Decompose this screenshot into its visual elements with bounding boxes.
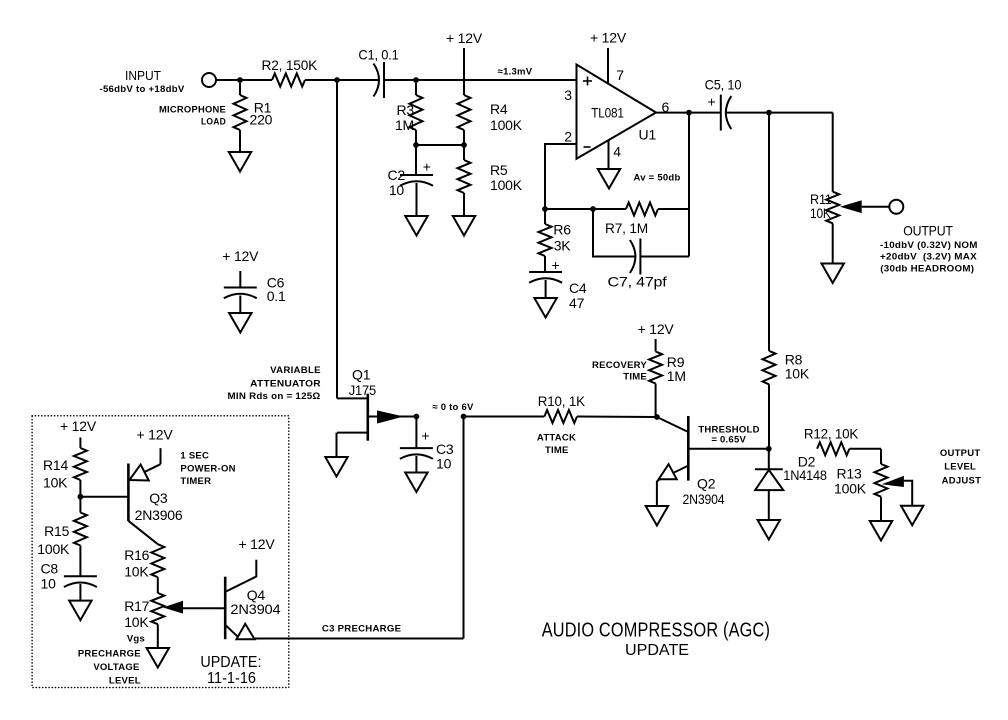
svg-text:Vgs: Vgs bbox=[127, 634, 145, 645]
svg-text:10: 10 bbox=[436, 456, 452, 472]
wire R3-R4 node bbox=[416, 144, 464, 146]
svg-text:C4: C4 bbox=[569, 280, 587, 296]
svg-text:4: 4 bbox=[613, 143, 621, 159]
svg-text:(30db HEADROOM): (30db HEADROOM) bbox=[880, 264, 974, 275]
ground below R13 wiper bbox=[901, 506, 923, 526]
svg-text:TIME: TIME bbox=[545, 445, 569, 456]
svg-text:C2: C2 bbox=[388, 167, 406, 183]
svg-text:R3: R3 bbox=[397, 102, 415, 118]
svg-text:LEVEL: LEVEL bbox=[944, 462, 976, 473]
wire C7 left leg bbox=[593, 209, 635, 257]
wire wiper to output terminal bbox=[862, 206, 890, 208]
svg-text:2N3906: 2N3906 bbox=[135, 507, 183, 523]
svg-text:R2, 150K: R2, 150K bbox=[262, 57, 318, 73]
svg-text:Q2: Q2 bbox=[697, 476, 716, 492]
svg-text:POWER-ON: POWER-ON bbox=[180, 464, 235, 475]
svg-text:R7, 1M: R7, 1M bbox=[605, 220, 648, 236]
svg-text:R10, 1K: R10, 1K bbox=[538, 393, 586, 409]
ground below Q1 source bbox=[325, 457, 347, 477]
wire pin 6 output bbox=[656, 112, 720, 114]
svg-text:PRECHARGE: PRECHARGE bbox=[78, 648, 141, 659]
svg-text:LEVEL: LEVEL bbox=[109, 675, 141, 686]
svg-text:7: 7 bbox=[616, 67, 624, 83]
wire C3 precharge bbox=[255, 638, 464, 640]
wire pin 7 supply bbox=[607, 48, 609, 84]
svg-text:AUDIO COMPRESSOR (AGC): AUDIO COMPRESSOR (AGC) bbox=[542, 620, 770, 642]
svg-text:TIMER: TIMER bbox=[180, 476, 211, 487]
ground below R11 bbox=[822, 264, 844, 284]
svg-text:Av = 50db: Av = 50db bbox=[633, 173, 680, 184]
svg-text:ATTACK: ATTACK bbox=[537, 433, 576, 444]
svg-text:= 0.65V: = 0.65V bbox=[711, 435, 746, 446]
svg-text:U1: U1 bbox=[639, 127, 657, 143]
resistor R14 bbox=[79, 438, 81, 449]
wire pin 2 inverting input bbox=[545, 144, 577, 209]
svg-text:10: 10 bbox=[389, 182, 405, 198]
svg-text:C7, 47pf: C7, 47pf bbox=[608, 274, 667, 290]
svg-text:TIME: TIME bbox=[623, 371, 647, 382]
svg-text:-10dbV (0.32V) NOM: -10dbV (0.32V) NOM bbox=[880, 240, 978, 251]
op-amp U1 TL081 bbox=[577, 65, 657, 159]
junction feedback/C7 bbox=[590, 206, 596, 212]
capacitor C6 bbox=[239, 271, 241, 288]
wire C7 right leg bbox=[640, 256, 689, 258]
wire pin 4 to ground bbox=[608, 141, 610, 170]
svg-text:+ 12V: + 12V bbox=[239, 536, 276, 552]
svg-text:ADJUST: ADJUST bbox=[942, 475, 982, 486]
node INPUT terminal bbox=[202, 73, 216, 87]
svg-text:+ 12V: + 12V bbox=[222, 248, 259, 264]
svg-text:1M: 1M bbox=[395, 117, 414, 133]
junction pin6/feedback bbox=[686, 110, 692, 116]
svg-text:2N3904: 2N3904 bbox=[230, 601, 280, 617]
svg-text:2N3904: 2N3904 bbox=[683, 491, 725, 507]
resistor R3 bbox=[415, 80, 417, 95]
R11 wiper arrow bbox=[840, 200, 862, 213]
svg-text:1M: 1M bbox=[667, 368, 686, 384]
wire C1 to op-amp pin 3 bbox=[384, 79, 577, 81]
junction R4/R5 bbox=[461, 142, 467, 148]
ground below R17 bbox=[147, 648, 169, 668]
wire C5 to R11 bbox=[727, 112, 833, 114]
resistor R1 bbox=[239, 80, 241, 95]
svg-text:+ 12V: + 12V bbox=[60, 418, 97, 434]
R17 wiper arrow bbox=[163, 601, 183, 614]
svg-text:100K: 100K bbox=[490, 117, 523, 133]
potentiometer R11 bbox=[826, 192, 839, 224]
node OUTPUT terminal bbox=[889, 200, 903, 214]
svg-text:+: + bbox=[708, 93, 716, 109]
ground below C6 bbox=[229, 313, 251, 333]
dotted enclosure 1 sec power-on timer bbox=[32, 416, 289, 688]
resistor R7 bbox=[626, 203, 658, 216]
svg-text:UPDATE:: UPDATE: bbox=[200, 654, 261, 671]
svg-text:10: 10 bbox=[41, 576, 57, 592]
svg-text:C8: C8 bbox=[41, 560, 59, 576]
svg-text:R15: R15 bbox=[44, 523, 69, 539]
svg-text:1 SEC: 1 SEC bbox=[180, 450, 209, 461]
resistor R10 bbox=[464, 416, 545, 418]
svg-text:+: + bbox=[423, 158, 431, 174]
junction C1/R3 bbox=[413, 77, 419, 83]
svg-text:R13: R13 bbox=[836, 466, 861, 482]
svg-text:10K: 10K bbox=[43, 475, 68, 491]
transistor Q4 2N3904 bbox=[224, 577, 227, 640]
svg-text:VOLTAGE: VOLTAGE bbox=[93, 662, 139, 673]
ground below D2 bbox=[758, 520, 780, 540]
svg-text:MIN Rds on = 125Ω: MIN Rds on = 125Ω bbox=[228, 391, 321, 402]
svg-text:10K: 10K bbox=[785, 366, 810, 382]
svg-text:OUTPUT: OUTPUT bbox=[903, 222, 953, 238]
svg-text:10K: 10K bbox=[810, 205, 831, 221]
capacitor C5 bbox=[720, 95, 722, 131]
junction C5/R8 bbox=[766, 110, 772, 116]
diode D2 1N4148 bbox=[768, 449, 770, 470]
op-amp plus input mark bbox=[583, 80, 592, 82]
capacitor C7 bbox=[630, 240, 636, 273]
svg-text:100K: 100K bbox=[490, 177, 523, 193]
svg-text:100K: 100K bbox=[834, 481, 867, 497]
wire output node down to C7 bbox=[688, 113, 690, 257]
potentiometer R17 bbox=[151, 593, 164, 624]
svg-text:3K: 3K bbox=[554, 237, 572, 253]
resistor R6 bbox=[539, 224, 552, 256]
junction Q1 gate / C3 bbox=[414, 414, 420, 420]
junction R6/feedback bbox=[542, 206, 548, 212]
svg-text:INPUT: INPUT bbox=[125, 68, 161, 83]
transistor Q2 2N3904 bbox=[687, 416, 690, 481]
junction R9/R10/Q2 collector bbox=[654, 414, 660, 420]
junction threshold node bbox=[766, 446, 772, 452]
junction R3/C2 bbox=[413, 142, 419, 148]
svg-text:11-1-16: 11-1-16 bbox=[207, 670, 256, 687]
transistor Q1 J175 bbox=[337, 397, 368, 399]
wire input to R2 bbox=[216, 79, 272, 81]
wire R2 to C1 bbox=[305, 79, 379, 81]
resistor R5 bbox=[463, 145, 465, 160]
svg-text:+: + bbox=[421, 428, 429, 444]
junction R14/R15/Q3 base bbox=[78, 494, 84, 500]
ground below C2 bbox=[405, 216, 427, 236]
svg-text:UPDATE: UPDATE bbox=[625, 642, 689, 659]
wire signal node down to Q1 drain bbox=[336, 80, 338, 398]
svg-text:10K: 10K bbox=[124, 614, 149, 630]
svg-text:2: 2 bbox=[564, 128, 572, 144]
svg-text:R12, 10K: R12, 10K bbox=[804, 426, 859, 442]
capacitor C8 bbox=[64, 575, 97, 577]
svg-text:OUTPUT: OUTPUT bbox=[940, 448, 981, 459]
wire R13 wiper to ground bbox=[904, 481, 912, 506]
ground below C8 bbox=[69, 601, 91, 621]
wire down to R11 bbox=[832, 113, 834, 192]
wire R7 to output node bbox=[658, 208, 689, 210]
resistor R2 bbox=[272, 74, 305, 87]
svg-text:-56dbV to +18dbV: -56dbV to +18dbV bbox=[100, 84, 185, 95]
resistor R8 bbox=[768, 113, 770, 351]
svg-text:+ 12V: + 12V bbox=[137, 427, 174, 443]
svg-text:220: 220 bbox=[250, 112, 273, 128]
wire R17 wiper to Q4 base bbox=[183, 607, 225, 609]
svg-text:R16: R16 bbox=[124, 547, 149, 563]
svg-text:R17: R17 bbox=[124, 598, 149, 614]
svg-text:+: + bbox=[552, 257, 560, 273]
svg-text:Q3: Q3 bbox=[149, 490, 168, 506]
svg-text:0.1: 0.1 bbox=[267, 288, 286, 304]
svg-text:RECOVERY: RECOVERY bbox=[592, 360, 647, 371]
svg-text:R6: R6 bbox=[553, 222, 571, 238]
svg-text:MICROPHONE: MICROPHONE bbox=[159, 104, 226, 115]
svg-text:3: 3 bbox=[564, 87, 572, 103]
svg-text:C3 PRECHARGE: C3 PRECHARGE bbox=[322, 623, 401, 634]
R13 wiper arrow bbox=[882, 476, 904, 487]
wire feedback node to R7 bbox=[545, 208, 626, 210]
ground below C4 bbox=[534, 298, 556, 318]
svg-text:LOAD: LOAD bbox=[201, 117, 226, 128]
svg-text:+ 12V: + 12V bbox=[638, 321, 675, 337]
svg-text:J175: J175 bbox=[349, 382, 377, 398]
capacitor C2 bbox=[415, 145, 417, 175]
svg-text:Q1: Q1 bbox=[352, 367, 371, 383]
ground below op-amp bbox=[598, 169, 620, 189]
capacitor C1 bbox=[374, 64, 380, 97]
junction R2/C1/Q1 bbox=[334, 77, 340, 83]
resistor R15 bbox=[74, 513, 87, 546]
svg-text:R14: R14 bbox=[43, 457, 68, 473]
svg-text:C1, 0.1: C1, 0.1 bbox=[358, 47, 399, 63]
ground below C3 bbox=[405, 473, 427, 493]
resistor R9 bbox=[655, 339, 657, 352]
resistor R4 bbox=[458, 95, 471, 130]
op-amp minus input mark bbox=[584, 146, 591, 148]
svg-text:47: 47 bbox=[569, 295, 585, 311]
wire precharge riser bbox=[463, 417, 465, 639]
svg-text:≈1.3mV: ≈1.3mV bbox=[498, 67, 533, 78]
svg-text:R4: R4 bbox=[490, 101, 508, 117]
capacitor C3 bbox=[415, 417, 417, 449]
svg-text:R5: R5 bbox=[490, 162, 508, 178]
ground below R1 bbox=[229, 152, 251, 172]
svg-text:+20dbV (3.2V) MAX: +20dbV (3.2V) MAX bbox=[880, 252, 977, 263]
resistor R12 bbox=[817, 442, 849, 455]
junction input/R1 bbox=[237, 77, 243, 83]
svg-text:C5, 10: C5, 10 bbox=[705, 77, 742, 93]
potentiometer R13 bbox=[875, 464, 888, 497]
svg-text:100K: 100K bbox=[37, 541, 70, 557]
svg-text:10K: 10K bbox=[124, 564, 149, 580]
svg-text:VARIABLE: VARIABLE bbox=[270, 365, 321, 376]
svg-text:TL081: TL081 bbox=[591, 105, 624, 121]
transistor Q3 2N3906 bbox=[127, 464, 130, 522]
svg-text:≈ 0 to 6V: ≈ 0 to 6V bbox=[432, 402, 474, 413]
Q1 gate arrow bbox=[368, 416, 417, 418]
junction gate node / precharge bbox=[461, 414, 467, 420]
wire +12V to R4 bbox=[463, 48, 465, 95]
ground below R5 bbox=[453, 216, 475, 236]
svg-text:ATTENUATOR: ATTENUATOR bbox=[250, 379, 321, 390]
resistor R16 bbox=[151, 544, 164, 577]
svg-text:+ 12V: + 12V bbox=[446, 30, 483, 46]
ground below Q2 emitter bbox=[646, 506, 668, 526]
svg-text:+ 12V: + 12V bbox=[590, 30, 627, 46]
svg-text:1N4148: 1N4148 bbox=[783, 467, 827, 483]
capacitor C4 bbox=[529, 271, 562, 273]
ground below R13 bbox=[870, 521, 892, 541]
